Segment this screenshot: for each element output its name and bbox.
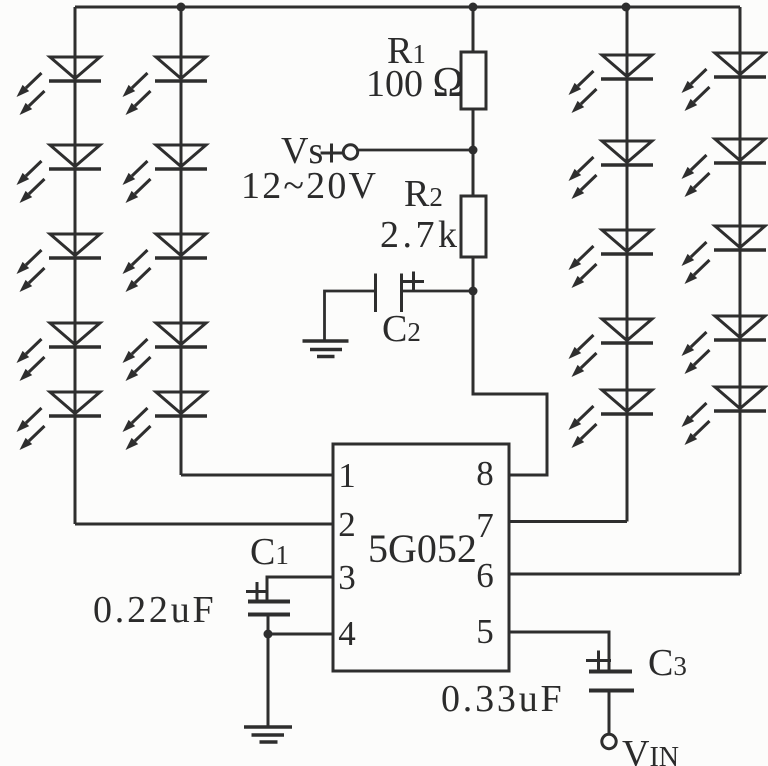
LED column3 diode4 [569,319,654,377]
svg-text:0.33uF: 0.33uF [441,678,564,720]
wire top bus [75,6,740,9]
LED column4 diode3 [682,226,767,284]
LED column2 diode4 [123,323,208,381]
wire R2 top lead [472,150,475,196]
LED column1 diode1 [17,57,102,115]
wire pin4 [268,633,333,636]
svg-text:7: 7 [476,506,494,545]
LED column1 diode2 [17,145,102,203]
terminal Vs plus sign [321,152,343,155]
wire col2 to pin1 [181,474,333,477]
svg-text:5: 5 [476,612,494,651]
LED column4 diode5 [682,387,767,445]
capacitor C2 left plate [374,274,377,313]
capacitor C3 top plate [589,670,632,674]
LED column4 diode1 [682,53,767,111]
svg-text:100 Ω: 100 Ω [366,60,464,106]
terminal Vs circle [343,145,357,159]
svg-text:2.7k: 2.7k [380,214,461,256]
svg-text:6: 6 [476,556,494,595]
wire C2 left lead [325,291,376,341]
LED column3 diode1 [569,55,654,113]
LED column2 diode1 [123,57,208,115]
capacitor C1 top plate [248,600,290,604]
capacitor C2 right plate [400,274,403,313]
LED column3 diode3 [569,230,654,288]
resistor R1 [461,52,486,109]
capacitor C3 plus sign [586,659,611,662]
wire C3 to VIN terminal [608,691,611,735]
capacitor C3 bottom plate [589,689,634,693]
svg-text:4: 4 [338,614,356,653]
wire pin3 to C1 [267,577,333,601]
wire R1 bottom lead [472,109,475,150]
node junction col2 top [177,3,186,12]
wire LED column 4 [739,7,742,574]
node junction C1-pin4 [264,630,273,639]
wire C1 bottom to ground [267,615,270,728]
svg-text:8: 8 [476,454,494,493]
LED column4 diode2 [682,139,767,197]
capacitor C2 plus sign [403,280,424,283]
wire R1 top lead [472,7,475,52]
LED column2 diode5 [123,392,208,450]
LED column2 diode3 [123,234,208,292]
LED column4 diode4 [682,316,767,374]
wire R2 bottom lead [472,257,475,291]
wire LED column 1 [74,7,77,524]
LED column3 diode2 [569,141,654,199]
wire col4 to pin6 [509,573,740,576]
ground C1 [244,725,292,728]
wire R2 to pin8 [473,291,547,475]
LED column3 diode5 [569,390,654,448]
wire C2 right lead [402,290,474,293]
svg-text:12~20V: 12~20V [241,165,378,207]
capacitor C1 plus sign [246,590,267,593]
svg-text:5G052: 5G052 [368,526,477,571]
node junction R2-C2 [469,287,478,296]
svg-text:2: 2 [338,505,356,544]
resistor R2 [461,196,486,257]
ground C2 [303,339,349,342]
node junction col3 top [622,3,631,12]
IC U1 5G052 box [333,444,509,671]
wire LED column 3 [626,7,629,522]
LED column2 diode2 [123,145,208,203]
wire Vs feed [357,149,473,152]
wire col3 to pin7 [509,520,627,523]
LED column1 diode4 [17,323,102,381]
terminal VIN circle [602,734,616,748]
node junction R1 top [469,3,478,12]
svg-text:1: 1 [338,456,356,495]
LED column1 diode3 [17,234,102,292]
capacitor C1 bottom plate [248,613,290,617]
svg-text:0.22uF: 0.22uF [93,589,216,631]
wire LED column 2 [180,7,183,475]
LED column1 diode5 [17,392,102,450]
wire pin5 to C3 [509,632,609,672]
svg-text:3: 3 [338,558,356,597]
wire col1 to pin2 [75,523,333,526]
node junction Vs-R1-R2 [469,146,478,155]
